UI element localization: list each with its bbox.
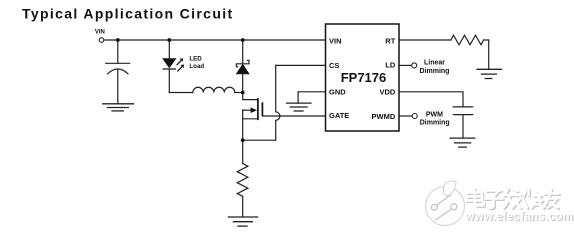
wire LED branch top [168,40,170,59]
wire node to sense resistor [242,140,244,163]
wire diode branch top [242,40,244,64]
svg-text:Typical Application Circuit: Typical Application Circuit [22,6,233,22]
wire LED to inductor [169,92,193,94]
diode D2 schottky [236,60,249,74]
capacitor C2 VDD [453,106,472,108]
wire CS vertical with hop over gate lead [276,65,280,140]
svg-text:GND: GND [329,88,346,97]
ground sense resistor [228,217,257,226]
wire drain lead [243,99,258,101]
node junction dot source-CS [241,138,245,142]
wire body-source vertical [242,110,244,140]
svg-text:RT: RT [385,36,395,45]
svg-text:Dimming: Dimming [420,68,450,75]
wire source lead [243,118,258,120]
svg-text:FP7176: FP7176 [341,70,387,85]
svg-text:VIN: VIN [95,30,105,36]
wire C2 to ground [462,115,464,139]
ground IC GND [287,103,312,111]
svg-text:LD: LD [385,61,396,70]
wire cap to ground [117,69,119,103]
node junction dot inductor-diode [241,91,245,95]
svg-text:Dimming: Dimming [420,120,450,127]
wire CS to IC [276,64,326,66]
svg-text:LED: LED [189,55,202,62]
ground RT [477,69,501,78]
capacitor C1 top plate [106,62,130,64]
wire node to drain [242,93,244,100]
svg-text:PWMD: PWMD [372,112,396,121]
node PWMD terminal [412,114,417,119]
watermark logo [426,181,465,225]
svg-text:Linear: Linear [424,60,445,67]
wire GND pin [298,91,325,93]
wire inductor to node [235,92,243,94]
capacitor C1 curved plate [108,69,128,74]
IC U1 FP7176 box [326,24,400,131]
wire resistor to ground [242,196,244,217]
wire VDD [399,92,463,107]
node VIN terminal [99,38,104,43]
transistor Q1 gate bar [261,102,263,116]
resistor R2 RT [451,35,484,45]
node junction dot 3 [241,38,245,42]
node LD terminal [412,63,417,68]
node junction dot 2 [167,38,171,42]
LED light arrow 2 [177,67,182,72]
LED light arrow 1 [177,60,182,65]
svg-text:VDD: VDD [379,88,395,97]
transistor Q1 channel bar [257,98,259,120]
svg-text:VIN: VIN [329,37,342,46]
svg-text:GATE: GATE [329,111,349,120]
wire RT down [488,40,490,69]
ground VDD cap [450,138,475,147]
inductor L1 [193,87,235,92]
wire RT resistor to corner [484,39,489,41]
wire source node to CS corner [243,139,276,141]
ground input cap [103,104,134,111]
wire PWMD stub [399,115,412,117]
LED D1 [163,58,185,71]
svg-text:www.elecfans.com: www.elecfans.com [464,211,573,223]
wire GND stub down [297,92,299,103]
wire gate lead to IC [262,115,325,117]
svg-text:CS: CS [329,61,339,70]
svg-text:PWM: PWM [426,111,443,118]
wire input cap branch [117,40,119,63]
wire diode to node [242,74,244,93]
wire RT to resistor [399,39,451,41]
wire LED cathode down [168,69,170,93]
wire body lead [243,109,252,111]
wire LD stub [399,64,412,66]
wire top rail VIN [104,39,326,41]
transistor Q1 body arrow [251,107,257,113]
node junction dot 1 [116,38,120,42]
resistor R1 sense [237,164,248,197]
svg-text:Load: Load [189,63,204,70]
